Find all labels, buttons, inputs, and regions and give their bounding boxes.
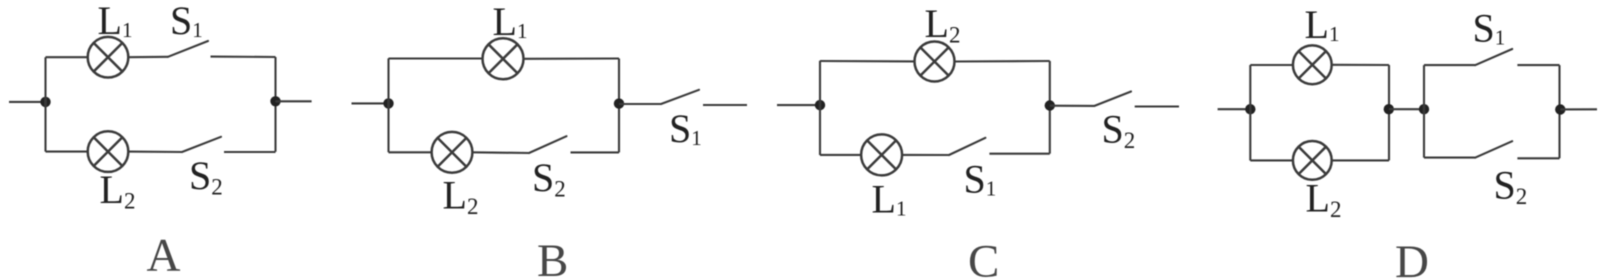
svg-text:D: D	[1395, 236, 1429, 279]
svg-text:B: B	[537, 235, 568, 279]
svg-text:C: C	[968, 236, 999, 279]
svg-text:A: A	[147, 230, 181, 279]
